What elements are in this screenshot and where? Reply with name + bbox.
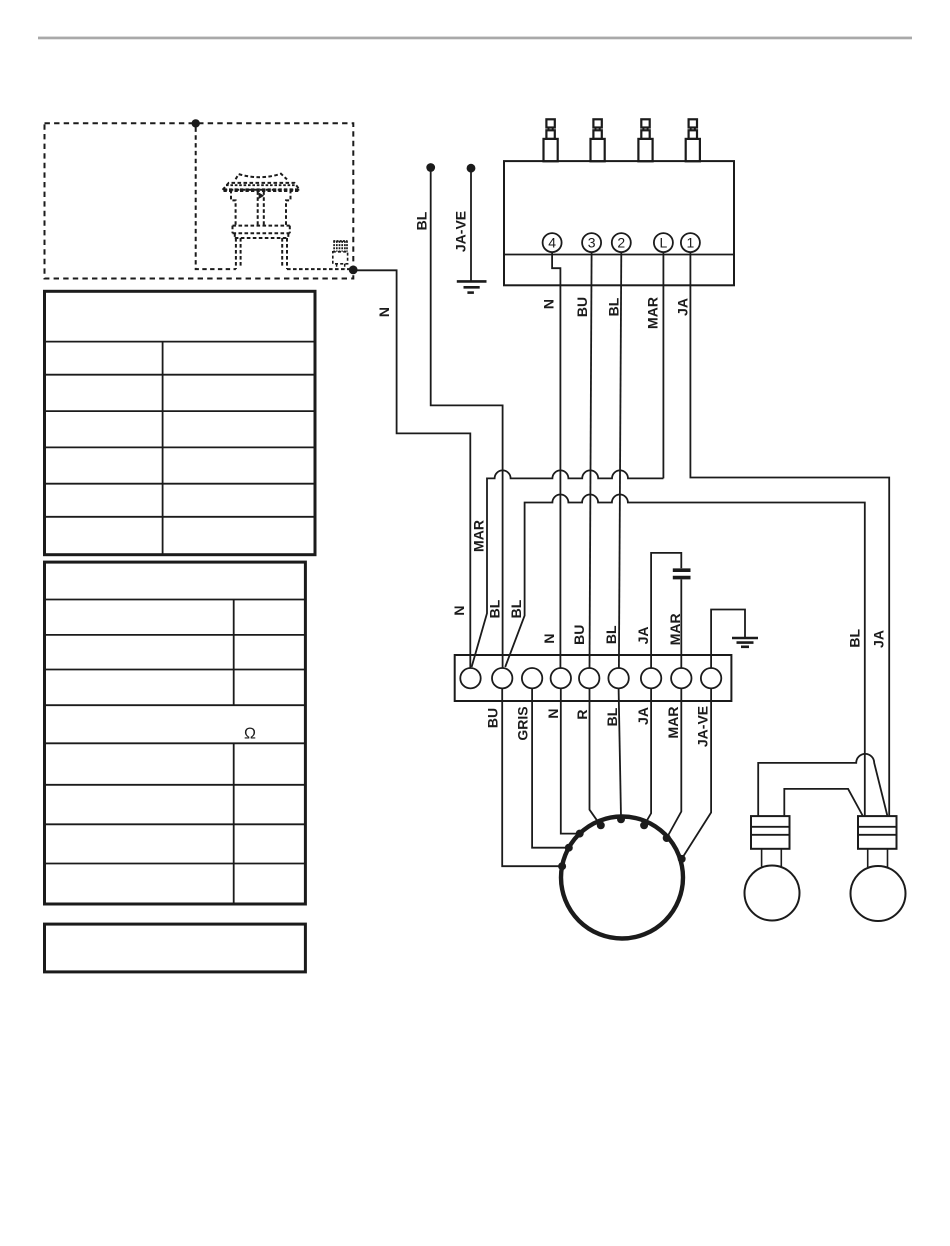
node: BL supply dot <box>426 163 435 172</box>
node: JA-VE supply dot <box>467 164 476 173</box>
wire MAR: terminal strip to motor <box>667 688 682 838</box>
svg-text:BL: BL <box>847 629 863 648</box>
node: junction dot at dashed box lower-right corner <box>349 266 358 275</box>
svg-text:Ω: Ω <box>244 726 256 743</box>
connector lug: body <box>333 252 348 264</box>
switch S1: rocker cap (dashed) <box>236 174 287 180</box>
node: junction dot on top edge of dashed box <box>192 119 200 127</box>
spade terminal 2 on top of U1 <box>591 119 605 161</box>
wire MAR: circle L down to MAR bus <box>662 252 664 478</box>
lamp holder 1 <box>751 816 790 849</box>
wire JA: circle 1 to lamps <box>690 252 889 815</box>
connector lug: crimp hatching <box>334 241 347 252</box>
wire N: circle 4 to terminal strip 4 <box>552 252 560 668</box>
svg-text:BL: BL <box>603 625 619 644</box>
table 3 <box>45 924 306 972</box>
capacitor C1 branch wire <box>651 553 681 668</box>
svg-text:BL: BL <box>606 297 622 316</box>
wire: dashed lead from right leg to connector and box edge <box>287 268 351 270</box>
lamp holder 2 <box>858 816 897 849</box>
svg-text:JA: JA <box>635 626 651 644</box>
wire R: terminal strip to motor <box>590 688 601 825</box>
wire BU: circle 3 to terminal strip 5 <box>590 252 592 668</box>
connector lug: top edge <box>333 240 347 242</box>
svg-text:1: 1 <box>687 235 695 251</box>
motor junction dots <box>558 815 686 870</box>
terminal strip TB1 <box>455 655 732 701</box>
switch S1: left leg (dashed) <box>236 238 241 269</box>
svg-text:N: N <box>541 634 557 644</box>
wire BL: terminal strip to motor <box>619 688 621 817</box>
wire JA-VE: terminal 9 to ground <box>711 610 745 669</box>
wire N: from switch assembly to terminal 1 <box>353 270 470 668</box>
terminal circle 3 <box>582 233 601 252</box>
svg-text:R: R <box>574 709 590 719</box>
wire MAR bus: hops over four wires, down to terminal 1 <box>472 470 664 667</box>
switch unit divider <box>504 254 734 256</box>
svg-text:BL: BL <box>604 707 620 726</box>
svg-text:BL: BL <box>487 599 503 618</box>
svg-text:BU: BU <box>485 708 501 728</box>
wire JA: terminal strip to motor <box>644 688 651 825</box>
terminal circle 4 <box>543 233 562 252</box>
svg-text:BL: BL <box>508 599 524 618</box>
switch S1: base plate (dashed) <box>233 226 290 234</box>
motor M1 <box>561 817 683 939</box>
lamp holder 1 neck <box>762 849 782 867</box>
terminal strip circles <box>460 668 480 688</box>
svg-text:3: 3 <box>588 235 596 251</box>
svg-text:JA-VE: JA-VE <box>453 211 469 252</box>
wire BL: supply to terminal 2 <box>431 170 503 668</box>
spade terminal 4 on top of U1 <box>686 119 700 161</box>
lamp holder 2 neck <box>868 849 888 867</box>
spade terminal 3 on top of U1 <box>638 119 652 161</box>
switch S1: flange inner dense band <box>224 188 299 192</box>
switch S1: right leg (dashed) <box>282 238 287 269</box>
dashed enclosure box (switch assembly) <box>45 123 354 278</box>
wire JA-VE: terminal strip to motor <box>682 688 711 859</box>
switch unit box U1 <box>504 161 734 285</box>
wire BU: terminal strip to motor <box>502 688 562 866</box>
svg-text:JA: JA <box>635 707 651 725</box>
svg-text:4: 4 <box>548 235 556 251</box>
wire BL: circle 2 to terminal strip 6 <box>619 252 621 668</box>
ground G1 <box>457 280 487 283</box>
wire GRIS: terminal strip to motor <box>532 688 569 847</box>
lamp bulb 2 <box>851 866 906 921</box>
svg-text:MAR: MAR <box>645 297 661 329</box>
svg-text:N: N <box>545 708 561 718</box>
terminal circle L <box>654 233 673 252</box>
wire: lamp feed 1 (left lamp to right lamp, hops BL) <box>758 754 887 816</box>
switch S1: actuator mark <box>259 192 265 199</box>
svg-text:N: N <box>451 605 467 615</box>
switch S1: center column (dashed) <box>258 191 264 225</box>
svg-text:2: 2 <box>617 235 625 251</box>
capacitor C1 plates <box>673 568 691 572</box>
svg-text:BU: BU <box>574 297 590 317</box>
connector lug: legs <box>337 264 345 269</box>
table 1 <box>45 291 316 554</box>
wire: dashed internal lead from top junction to switch left leg <box>196 128 236 270</box>
terminal circle 2 <box>612 233 631 252</box>
svg-text:MAR: MAR <box>471 520 487 552</box>
wire JA-VE: supply to ground <box>470 171 472 281</box>
svg-text:BU: BU <box>571 625 587 645</box>
ground G2 <box>732 637 758 640</box>
switch S1: mounting flange (dashed) <box>223 183 300 190</box>
svg-text:MAR: MAR <box>665 707 681 739</box>
switch S1: body (dashed) <box>231 190 291 226</box>
switch S1: lower band (dashed) <box>235 233 288 238</box>
top horizontal rule <box>38 37 912 40</box>
svg-text:JA-VE: JA-VE <box>695 706 711 747</box>
svg-text:JA: JA <box>675 298 691 316</box>
wire: lamp feed 2 <box>784 789 862 816</box>
svg-text:N: N <box>376 307 392 317</box>
lamp bulb 1 <box>745 866 800 921</box>
svg-text:L: L <box>660 235 668 251</box>
wire N: terminal strip to motor <box>561 688 580 833</box>
spade terminal 1 on top of U1 <box>544 119 558 161</box>
svg-text:BL: BL <box>414 211 430 230</box>
svg-text:GRIS: GRIS <box>515 706 531 740</box>
wire BL bus: to lamps, hops over three wires, down to terminal 2 <box>505 495 865 817</box>
table 2 <box>45 562 306 904</box>
terminal circle 1 <box>681 233 700 252</box>
svg-text:JA: JA <box>871 630 887 648</box>
svg-text:N: N <box>541 299 557 309</box>
